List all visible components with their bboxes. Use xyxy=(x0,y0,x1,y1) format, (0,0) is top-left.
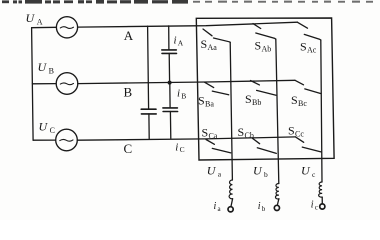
svg-text:C: C xyxy=(180,145,185,154)
svg-text:Bc: Bc xyxy=(298,99,307,108)
svg-text:S: S xyxy=(198,93,205,107)
svg-text:S: S xyxy=(201,37,208,51)
converter box outline xyxy=(196,18,334,160)
svg-text:b: b xyxy=(264,170,268,179)
terminal a xyxy=(228,207,233,212)
wire: output column a xyxy=(230,42,232,180)
wire: U_B left lead xyxy=(32,83,56,85)
svg-text:Cc: Cc xyxy=(295,130,304,139)
inductor L_c xyxy=(319,182,323,197)
switch S_Cc xyxy=(296,137,322,152)
cut-off caption text (top right, lighter) xyxy=(193,1,373,3)
AC source U_B xyxy=(56,73,78,95)
label U_c xyxy=(301,164,316,179)
svg-text:S: S xyxy=(238,125,245,139)
svg-text:U: U xyxy=(301,164,311,178)
svg-text:S: S xyxy=(255,39,262,53)
svg-text:Ab: Ab xyxy=(262,45,272,54)
svg-text:Aa: Aa xyxy=(208,43,218,52)
label S_Ba xyxy=(198,93,214,108)
capacitor C_BC branch wire (dot to top plate) xyxy=(169,83,171,108)
svg-text:a: a xyxy=(218,170,222,179)
svg-text:Ba: Ba xyxy=(205,99,214,108)
svg-text:b: b xyxy=(262,205,266,213)
wire: phase line C bus xyxy=(77,137,295,140)
label S_Aa xyxy=(201,37,218,52)
wire: C_BC bottom plate to line C xyxy=(169,112,171,139)
label i_a xyxy=(214,201,222,213)
wire: L_a to terminal a xyxy=(231,199,233,207)
svg-text:C: C xyxy=(124,141,133,156)
wire: phase line B bus xyxy=(78,80,295,83)
label U_A xyxy=(26,11,43,27)
cut-off caption text (top edge fragments) xyxy=(2,0,188,4)
inductor L_a xyxy=(229,180,233,199)
wire: L_b to terminal b xyxy=(277,199,279,205)
svg-text:Bb: Bb xyxy=(252,98,261,107)
svg-text:A: A xyxy=(37,17,43,26)
svg-text:Ac: Ac xyxy=(307,46,317,55)
svg-text:i: i xyxy=(177,88,180,100)
switch S_Bb xyxy=(251,81,277,96)
svg-text:U: U xyxy=(39,120,49,134)
wire: phase line A bus xyxy=(78,22,298,27)
svg-text:S: S xyxy=(245,92,252,106)
svg-text:U: U xyxy=(207,163,217,177)
capacitor C_AC xyxy=(141,109,156,114)
label U_b xyxy=(253,164,268,179)
label i_B xyxy=(177,88,186,101)
switch S_Ac xyxy=(298,22,321,40)
wire: U_A left lead xyxy=(32,26,57,28)
label U_C xyxy=(39,120,55,136)
svg-text:i: i xyxy=(175,141,178,153)
svg-text:a: a xyxy=(218,205,222,213)
terminal b xyxy=(274,205,279,210)
label S_Ca xyxy=(202,125,218,140)
svg-text:c: c xyxy=(312,170,316,179)
inductor L_b xyxy=(275,184,279,200)
svg-text:B: B xyxy=(49,66,54,75)
wire: output column b xyxy=(276,39,279,183)
label i_A xyxy=(174,35,184,48)
label i_c xyxy=(311,200,318,212)
junction dot on line B xyxy=(168,81,172,85)
svg-text:U: U xyxy=(26,11,36,25)
wire: C_AB bottom plate to node B xyxy=(168,53,170,82)
label S_Ab xyxy=(255,39,272,54)
wire: L_c to terminal c xyxy=(321,197,323,203)
capacitor C_AB xyxy=(162,50,177,54)
label U_B xyxy=(38,60,54,76)
label S_Bc xyxy=(291,93,307,108)
label S_Bb xyxy=(245,92,261,107)
node label A xyxy=(124,28,134,43)
svg-text:S: S xyxy=(300,39,307,53)
node label C xyxy=(124,141,133,156)
svg-text:S: S xyxy=(202,125,209,139)
switch S_Cb xyxy=(252,138,276,153)
capacitor C_AC branch wire (A down through B crossing) xyxy=(148,26,149,109)
switch S_Bc xyxy=(295,80,321,93)
svg-text:B: B xyxy=(181,91,186,100)
svg-text:S: S xyxy=(288,123,295,137)
label i_C xyxy=(175,141,184,154)
wire: U_C left lead xyxy=(33,139,55,141)
node label B xyxy=(124,84,133,99)
label i_b xyxy=(258,201,266,213)
svg-text:Cb: Cb xyxy=(245,131,254,140)
wire: output column c xyxy=(321,40,322,182)
switch S_Ba xyxy=(205,82,229,95)
svg-text:i: i xyxy=(311,200,314,211)
capacitor C_AB branch wire (A to top plate) xyxy=(168,26,170,50)
label S_Cb xyxy=(238,125,254,140)
svg-text:U: U xyxy=(253,164,263,178)
svg-text:S: S xyxy=(291,93,298,107)
svg-text:C: C xyxy=(50,126,55,135)
label S_Cc xyxy=(288,123,304,138)
AC source U_C xyxy=(56,129,78,151)
switch S_Aa xyxy=(203,29,230,42)
svg-text:i: i xyxy=(214,201,217,212)
AC source U_A xyxy=(56,17,77,38)
svg-text:i: i xyxy=(258,201,261,212)
wire: left source bus (vertical) xyxy=(32,28,33,141)
switch S_Ca xyxy=(206,140,231,153)
svg-text:U: U xyxy=(38,60,48,74)
svg-text:Ca: Ca xyxy=(209,132,218,141)
capacitor C_BC xyxy=(163,108,178,112)
label S_Ac xyxy=(300,39,317,54)
svg-text:i: i xyxy=(174,35,177,47)
svg-text:A: A xyxy=(124,28,134,43)
svg-text:c: c xyxy=(315,204,318,212)
wire: C_AC bottom plate to line C xyxy=(148,114,150,139)
svg-text:A: A xyxy=(178,38,184,47)
label U_a xyxy=(207,163,222,178)
terminal c xyxy=(320,204,325,209)
svg-text:B: B xyxy=(124,84,133,99)
switch S_Ab xyxy=(253,24,276,40)
